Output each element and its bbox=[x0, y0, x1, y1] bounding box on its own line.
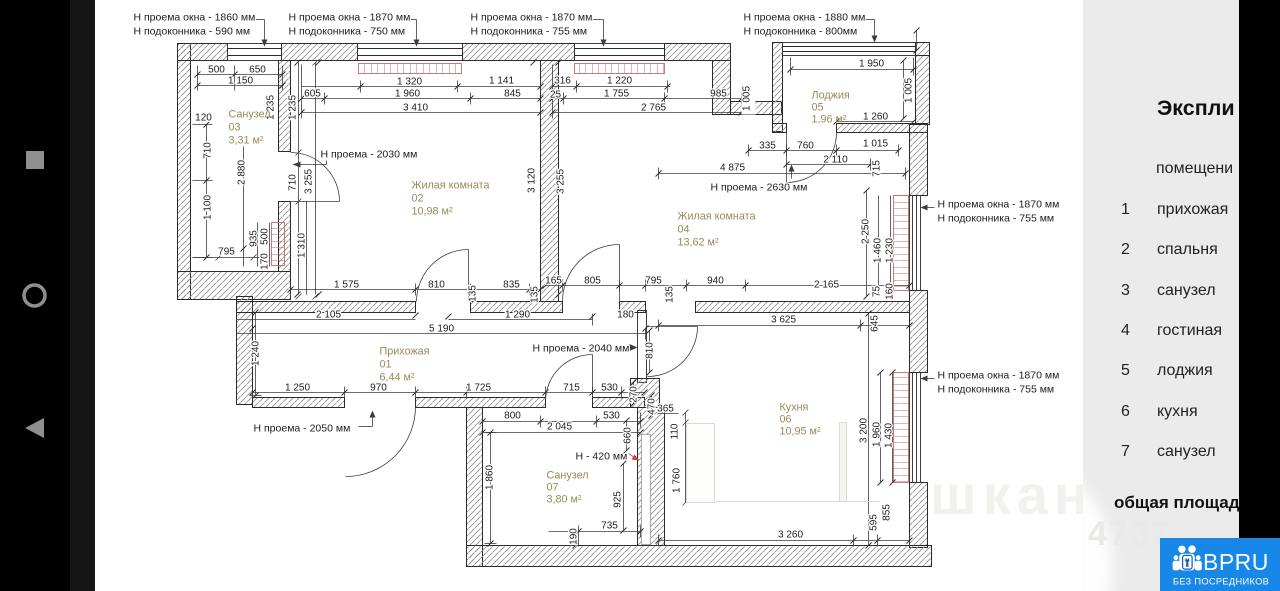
door sanuzel 07 bbox=[546, 355, 593, 402]
svg-text:Н проема окна - 1860 мм: Н проема окна - 1860 мм bbox=[134, 12, 256, 24]
svg-text:Н подоконника - 755 мм: Н подоконника - 755 мм bbox=[938, 384, 1055, 396]
sanuzel 07 left wall bbox=[467, 408, 483, 567]
svg-text:Прихожая: Прихожая bbox=[380, 346, 430, 358]
outer wall top segment A bbox=[178, 44, 228, 61]
svg-text:25: 25 bbox=[550, 90, 562, 101]
leader A3 bbox=[591, 20, 607, 47]
svg-text:6,44 м²: 6,44 м² bbox=[380, 372, 415, 384]
svg-text:3: 3 bbox=[1121, 282, 1130, 299]
rotated dims sanuzel07 bbox=[485, 423, 683, 545]
legend row 1 bbox=[1121, 201, 1228, 218]
leader A1 bbox=[255, 20, 268, 47]
wall between rooms 02 and 04 bbox=[541, 61, 559, 302]
loggia left wall bbox=[773, 43, 783, 132]
nav icon home circle bbox=[24, 285, 45, 306]
rotated dims small center bbox=[251, 285, 676, 415]
dim chain top row2 bbox=[302, 93, 541, 105]
svg-text:650: 650 bbox=[249, 65, 266, 76]
svg-text:1 220: 1 220 bbox=[607, 76, 632, 87]
svg-text:3 120: 3 120 bbox=[527, 168, 538, 193]
label sanuzel 07 bbox=[547, 470, 589, 506]
dim 270 470 bbox=[634, 383, 652, 416]
svg-text:06: 06 bbox=[780, 414, 792, 426]
svg-text:Н проема окна - 1880 мм: Н проема окна - 1880 мм bbox=[744, 12, 866, 24]
svg-text:Санузел: Санузел bbox=[229, 109, 271, 121]
svg-text:365: 365 bbox=[657, 404, 674, 415]
svg-text:Н подоконника - 590 мм: Н подоконника - 590 мм bbox=[134, 26, 251, 38]
svg-text:1 725: 1 725 bbox=[466, 383, 491, 394]
svg-text:1 240: 1 240 bbox=[251, 341, 262, 366]
door kitchen bbox=[648, 327, 698, 377]
svg-text:Н проема - 2030 мм: Н проема - 2030 мм bbox=[321, 149, 418, 161]
svg-text:165: 165 bbox=[545, 276, 562, 287]
window room 02 bbox=[358, 44, 463, 61]
dim verticals room04 right bbox=[867, 191, 891, 297]
nav icon recents square bbox=[26, 151, 44, 169]
dim 925 bbox=[623, 464, 625, 531]
svg-text:470: 470 bbox=[647, 398, 658, 415]
radiator room 04 bbox=[575, 64, 665, 74]
svg-text:01: 01 bbox=[380, 359, 392, 371]
svg-text:лоджия: лоджия bbox=[1157, 362, 1213, 379]
svg-text:Н проема - 2050 мм: Н проема - 2050 мм bbox=[254, 423, 351, 435]
outer wall top segment B bbox=[282, 44, 358, 61]
leader A2 bbox=[409, 20, 420, 47]
svg-text:715: 715 bbox=[872, 160, 883, 177]
dim 810 vertical kitchen door bbox=[649, 331, 651, 373]
svg-text:1 460: 1 460 bbox=[873, 238, 884, 263]
dims top room02 bbox=[304, 76, 521, 114]
label loggia 05 bbox=[812, 90, 850, 126]
leader A6 bbox=[921, 376, 935, 382]
door sanuzel 03 bbox=[291, 153, 340, 202]
svg-text:190: 190 bbox=[569, 528, 580, 545]
svg-text:кухня: кухня bbox=[1157, 403, 1198, 420]
dim chain under loggia row2 bbox=[787, 159, 871, 171]
radiator room 04 right bbox=[894, 196, 909, 291]
svg-text:270: 270 bbox=[629, 386, 640, 403]
svg-text:805: 805 bbox=[584, 276, 601, 287]
svg-text:855: 855 bbox=[882, 504, 893, 521]
leader 2630 bbox=[789, 165, 795, 179]
leader A5 bbox=[921, 205, 935, 211]
svg-text:710: 710 bbox=[203, 142, 214, 159]
svg-text:645: 645 bbox=[870, 315, 881, 332]
dim kitchen right verticals bbox=[869, 314, 893, 546]
legend row 7 bbox=[1121, 443, 1216, 460]
svg-text:1 015: 1 015 bbox=[863, 139, 888, 150]
svg-text:2 045: 2 045 bbox=[547, 422, 572, 433]
annotation window A6 bbox=[938, 370, 1060, 396]
svg-text:2 110: 2 110 bbox=[823, 155, 848, 166]
dim chain vent left bbox=[258, 223, 270, 267]
svg-text:Н проема окна - 1870 мм: Н проема окна - 1870 мм bbox=[938, 370, 1060, 382]
dims room02 bottom row bbox=[334, 280, 520, 291]
svg-text:общая площад: общая площад bbox=[1114, 493, 1240, 512]
shaft in wall bbox=[642, 435, 651, 545]
dim 660 110 bbox=[627, 410, 689, 506]
svg-text:925: 925 bbox=[613, 491, 624, 508]
right outer wall chunk 2 bbox=[910, 291, 928, 373]
window sanuzel 03 bbox=[228, 44, 282, 61]
dims top left sanuzel03 bbox=[195, 65, 266, 258]
dims top room04 bbox=[550, 76, 727, 114]
svg-text:110: 110 bbox=[670, 423, 681, 439]
svg-text:Жилая комната: Жилая комната bbox=[678, 211, 756, 223]
dim 365 bbox=[658, 413, 679, 415]
svg-text:2 880: 2 880 bbox=[237, 160, 248, 185]
loggia bottom wall right seg bbox=[837, 124, 928, 133]
room04 bottom wall seg over hallway bbox=[620, 302, 646, 313]
door room 02 bbox=[417, 250, 469, 302]
svg-text:120: 120 bbox=[195, 113, 212, 124]
svg-text:03: 03 bbox=[229, 122, 241, 134]
legend panel background bbox=[1083, 0, 1240, 591]
dim 5190 bbox=[237, 328, 646, 340]
svg-text:1 150: 1 150 bbox=[228, 76, 253, 87]
svg-text:3,80 м²: 3,80 м² bbox=[547, 494, 582, 506]
svg-text:800: 800 bbox=[504, 411, 521, 422]
left nav bar inner strip bbox=[70, 0, 95, 591]
svg-text:530: 530 bbox=[603, 411, 620, 422]
svg-text:760: 760 bbox=[797, 141, 814, 152]
svg-text:шкан: шкан bbox=[930, 463, 1094, 526]
dim 735 190 bbox=[549, 526, 641, 547]
kitchen counter gray bbox=[687, 423, 881, 503]
svg-text:3 625: 3 625 bbox=[771, 315, 796, 326]
dim chain top row2 room04 bbox=[553, 93, 742, 105]
sanuzel 03 bottom wall mass bbox=[178, 272, 291, 300]
svg-text:Н - 420 мм: Н - 420 мм bbox=[576, 451, 628, 463]
dim chain top row1 room04 bbox=[553, 81, 671, 93]
svg-text:2 765: 2 765 bbox=[641, 103, 666, 114]
svg-text:940: 940 bbox=[707, 276, 724, 287]
svg-text:985: 985 bbox=[710, 89, 727, 100]
label room 04 bbox=[678, 211, 756, 249]
dim chain top row3 room04 bbox=[553, 65, 742, 119]
rotated dims rooms 02-04 middle bbox=[527, 168, 567, 194]
dims loggia bbox=[720, 59, 888, 174]
svg-text:3,31 м²: 3,31 м² bbox=[229, 135, 264, 147]
svg-text:7: 7 bbox=[1121, 443, 1130, 460]
leader A4 bbox=[863, 20, 878, 43]
window kitchen right bbox=[910, 373, 921, 483]
svg-text:6: 6 bbox=[1121, 403, 1130, 420]
svg-text:Н подоконника - 750 мм: Н подоконника - 750 мм bbox=[289, 26, 406, 38]
svg-text:170: 170 bbox=[260, 253, 271, 270]
svg-text:санузел: санузел bbox=[1157, 443, 1216, 460]
svg-text:160: 160 bbox=[885, 283, 896, 300]
step wall horizontal to loggia bbox=[731, 102, 782, 115]
dim chain left outer bbox=[193, 125, 263, 267]
svg-text:1 310: 1 310 bbox=[297, 233, 308, 258]
svg-text:Н подоконника - 755 мм: Н подоконника - 755 мм bbox=[471, 26, 588, 38]
svg-text:500: 500 bbox=[260, 228, 271, 245]
wall between sanuzel 07 and kitchen bbox=[638, 408, 665, 546]
dims room04 bottom row bbox=[545, 276, 839, 291]
svg-text:715: 715 bbox=[563, 383, 580, 394]
dim chain under loggia row1 bbox=[749, 145, 899, 157]
svg-text:135: 135 bbox=[665, 286, 676, 303]
svg-text:10,98 м²: 10,98 м² bbox=[412, 206, 453, 218]
svg-text:помещени: помещени bbox=[1156, 160, 1233, 177]
svg-text:3 255: 3 255 bbox=[556, 169, 567, 194]
hallway bottom wall seg 3 bbox=[593, 398, 645, 408]
dim chain hallway top bbox=[237, 314, 638, 329]
svg-text:970: 970 bbox=[370, 383, 387, 394]
svg-text:595: 595 bbox=[869, 514, 880, 531]
svg-text:Экспли: Экспли bbox=[1157, 96, 1235, 120]
right outer wall chunk 1 bbox=[910, 125, 928, 196]
svg-text:3 255: 3 255 bbox=[304, 169, 315, 194]
nav icon back triangle bbox=[25, 418, 44, 438]
dim 4875 bbox=[659, 168, 906, 180]
svg-text:Н проема окна - 1870 мм: Н проема окна - 1870 мм bbox=[289, 12, 411, 24]
svg-text:1 100: 1 100 bbox=[203, 195, 214, 220]
hallway bottom wall seg 1 bbox=[253, 398, 345, 408]
dim chain top row3 bbox=[302, 65, 541, 119]
svg-text:4737: 4737 bbox=[1088, 515, 1172, 553]
svg-text:1 755: 1 755 bbox=[604, 89, 629, 100]
kitchen top wall bbox=[696, 302, 910, 313]
rotated dims loggia right bbox=[742, 78, 915, 177]
dim 1005 loggia right bbox=[904, 31, 917, 119]
bottom outer wall bbox=[467, 546, 932, 567]
leader 2050 bbox=[359, 411, 376, 427]
legend row 6 bbox=[1121, 403, 1198, 420]
legend row 3 bbox=[1121, 282, 1216, 299]
loggia right wall bbox=[916, 56, 930, 125]
watermark circle bbox=[857, 440, 1113, 591]
svg-text:Жилая комната: Жилая комната bbox=[412, 180, 490, 192]
hallway right thin wall bbox=[638, 311, 647, 383]
svg-text:Кухня: Кухня bbox=[780, 402, 809, 414]
svg-text:810: 810 bbox=[428, 280, 445, 291]
label room 02 bbox=[412, 180, 490, 218]
dim chain top row1 bbox=[302, 81, 541, 93]
svg-text:135: 135 bbox=[530, 286, 541, 303]
wall between sanuzel 03 and room 02 lower bbox=[279, 202, 291, 272]
svg-text:1 250: 1 250 bbox=[285, 383, 310, 394]
window room 04 bbox=[575, 44, 665, 61]
loggia top window bbox=[783, 43, 916, 56]
dim chain room02 left verticals bbox=[296, 60, 319, 300]
svg-text:845: 845 bbox=[504, 89, 521, 100]
dim loggia 1260 bbox=[837, 121, 914, 123]
svg-text:4: 4 bbox=[1121, 322, 1130, 339]
svg-text:1 005: 1 005 bbox=[904, 78, 915, 103]
svg-text:Н подоконника - 755 мм: Н подоконника - 755 мм bbox=[938, 213, 1055, 225]
bpru icon people bbox=[1173, 545, 1202, 570]
dim chain hallway bottom bbox=[253, 387, 645, 399]
svg-text:Н проема - 2630 мм: Н проема - 2630 мм bbox=[711, 182, 808, 194]
svg-text:1 960: 1 960 bbox=[872, 422, 883, 447]
legend row 5 bbox=[1121, 362, 1213, 379]
svg-text:3 410: 3 410 bbox=[403, 103, 428, 114]
hallway top wall seg 2 bbox=[471, 302, 563, 313]
svg-text:Н проема - 2040 мм: Н проема - 2040 мм bbox=[533, 343, 630, 355]
svg-text:1 320: 1 320 bbox=[397, 77, 422, 88]
svg-text:316: 316 bbox=[554, 76, 571, 87]
svg-text:гостиная: гостиная bbox=[1157, 322, 1222, 339]
svg-text:3 200: 3 200 bbox=[859, 418, 870, 443]
dim 3625 kitchen bbox=[659, 320, 910, 332]
step wall vertical near loggia bbox=[713, 61, 731, 115]
dim 3260 bbox=[659, 535, 910, 547]
svg-text:1 950: 1 950 bbox=[859, 59, 884, 70]
svg-text:135: 135 bbox=[468, 285, 479, 302]
svg-text:прихожая: прихожая bbox=[1157, 201, 1228, 218]
dims hallway rows bbox=[316, 310, 796, 335]
svg-text:2 105: 2 105 bbox=[316, 310, 341, 321]
svg-text:2 250: 2 250 bbox=[861, 219, 872, 244]
dim 1240 vertical bbox=[250, 313, 262, 396]
label kitchen 06 bbox=[780, 402, 821, 438]
svg-text:5: 5 bbox=[1121, 362, 1130, 379]
bpru logo box bbox=[1160, 538, 1280, 591]
svg-text:710: 710 bbox=[288, 174, 299, 191]
leader 420 red bbox=[629, 454, 640, 461]
loggia bottom wall left seg bbox=[773, 124, 787, 133]
radiator kitchen bbox=[894, 373, 909, 483]
outer wall top segment C bbox=[463, 44, 575, 61]
svg-text:1 230: 1 230 bbox=[885, 238, 896, 263]
door loggia bbox=[787, 133, 837, 183]
label sanuzel 03 bbox=[229, 109, 271, 147]
svg-text:2: 2 bbox=[1121, 241, 1130, 258]
wall between sanuzel 03 and room 02 upper bbox=[279, 61, 291, 152]
svg-text:БЕЗ ПОСРЕДНИКОВ: БЕЗ ПОСРЕДНИКОВ bbox=[1173, 577, 1269, 587]
svg-text:3 260: 3 260 bbox=[778, 530, 803, 541]
svg-text:810: 810 bbox=[645, 342, 656, 359]
annotation window A5 bbox=[938, 199, 1060, 225]
radiator room 02 bbox=[359, 64, 462, 74]
svg-text:795: 795 bbox=[218, 247, 235, 258]
svg-text:07: 07 bbox=[547, 482, 559, 494]
svg-text:1 860: 1 860 bbox=[485, 465, 496, 490]
svg-text:4 875: 4 875 bbox=[720, 163, 745, 174]
left nav bar bbox=[0, 0, 70, 591]
rotated dims room02 left bbox=[266, 95, 315, 258]
svg-text:13,62 м²: 13,62 м² bbox=[678, 237, 719, 249]
svg-text:спальня: спальня bbox=[1157, 241, 1218, 258]
svg-text:1 760: 1 760 bbox=[672, 468, 683, 493]
svg-text:05: 05 bbox=[812, 102, 824, 114]
svg-text:BPRU: BPRU bbox=[1203, 549, 1269, 575]
svg-text:02: 02 bbox=[412, 193, 424, 205]
svg-text:1 960: 1 960 bbox=[395, 89, 420, 100]
svg-text:Санузел: Санузел bbox=[547, 470, 589, 482]
svg-text:2 165: 2 165 bbox=[814, 280, 839, 291]
svg-text:75: 75 bbox=[872, 286, 883, 298]
hallway bottom wall seg 2 bbox=[416, 398, 546, 408]
hallway left outer wall bbox=[237, 297, 253, 405]
legend row 4 bbox=[1121, 322, 1222, 339]
svg-text:1 290: 1 290 bbox=[505, 310, 530, 321]
entrance door bbox=[346, 407, 416, 477]
annotation window A3 bbox=[471, 12, 593, 38]
svg-text:1 430: 1 430 bbox=[884, 423, 895, 448]
svg-text:180: 180 bbox=[617, 310, 634, 321]
svg-text:735: 735 bbox=[601, 521, 618, 532]
svg-text:5 190: 5 190 bbox=[429, 324, 454, 335]
dim chain room02 bottom bbox=[291, 284, 541, 296]
annotation window A4 bbox=[744, 12, 866, 38]
loggia top right corner bbox=[916, 43, 930, 56]
svg-text:500: 500 bbox=[208, 65, 225, 76]
leader 2040 arrow bbox=[627, 344, 638, 351]
svg-text:10,95 м²: 10,95 м² bbox=[780, 426, 821, 438]
svg-text:835: 835 bbox=[503, 280, 520, 291]
dims sanuzel07 top bbox=[504, 404, 674, 433]
outer wall left (Sanuzel 03 block) bbox=[178, 44, 191, 300]
svg-text:795: 795 bbox=[645, 276, 662, 287]
dims sanuzel07 bottom bbox=[601, 521, 803, 541]
svg-text:530: 530 bbox=[601, 383, 618, 394]
rotated dims left side bbox=[203, 142, 271, 270]
annotation window A1 bbox=[134, 12, 256, 38]
dim chain room04 bottom bbox=[546, 280, 910, 292]
svg-text:935: 935 bbox=[249, 230, 260, 247]
dimension tick marks bbox=[195, 28, 920, 549]
svg-text:1 235: 1 235 bbox=[288, 95, 299, 120]
svg-text:санузел: санузел bbox=[1157, 282, 1216, 299]
dims hallway bottom row bbox=[285, 383, 618, 394]
outer wall top segment D bbox=[665, 44, 731, 61]
svg-text:Н проема окна - 1870 мм: Н проема окна - 1870 мм bbox=[938, 199, 1060, 211]
red vent shaft sanuzel03 bbox=[272, 223, 285, 266]
window room 04 right bbox=[910, 196, 921, 291]
svg-text:Лоджия: Лоджия bbox=[812, 90, 850, 102]
svg-text:1 575: 1 575 bbox=[334, 280, 359, 291]
halo for dim 1005 bbox=[742, 85, 756, 115]
dim 1860 bbox=[485, 433, 497, 544]
door room 04 bbox=[563, 245, 620, 302]
svg-text:1 005: 1 005 bbox=[742, 86, 753, 111]
svg-text:660: 660 bbox=[623, 427, 634, 444]
svg-text:1,96 м²: 1,96 м² bbox=[812, 114, 847, 126]
wall jog hallway-kitchen bbox=[631, 379, 660, 408]
svg-text:605: 605 bbox=[304, 89, 321, 100]
dim loggia 1950 bbox=[791, 58, 914, 76]
svg-text:Н подоконника - 800мм: Н подоконника - 800мм bbox=[744, 26, 858, 38]
svg-text:1 141: 1 141 bbox=[489, 76, 514, 87]
rotated dims kitchen right bbox=[859, 315, 895, 531]
svg-text:1 260: 1 260 bbox=[863, 112, 888, 123]
leader 2030 bbox=[293, 161, 327, 168]
hallway top wall / room02 bottom seg 1 bbox=[237, 302, 416, 313]
right black bar bbox=[1239, 0, 1280, 538]
label hallway 01 bbox=[380, 346, 430, 384]
svg-text:Н проема окна - 1870 мм: Н проема окна - 1870 мм bbox=[471, 12, 593, 24]
annotation window A2 bbox=[289, 12, 411, 38]
svg-text:1: 1 bbox=[1121, 201, 1130, 218]
svg-text:04: 04 bbox=[678, 224, 690, 236]
svg-text:335: 335 bbox=[759, 141, 776, 152]
right outer wall chunk 3 bbox=[910, 483, 928, 548]
dim chain sanuzel03 top bbox=[198, 66, 283, 91]
bpru icon center badge bbox=[1183, 555, 1193, 569]
rotated dims room04 right bbox=[861, 219, 896, 300]
legend row 2 bbox=[1121, 241, 1218, 258]
dim chain sanuzel07 top bbox=[483, 413, 641, 433]
